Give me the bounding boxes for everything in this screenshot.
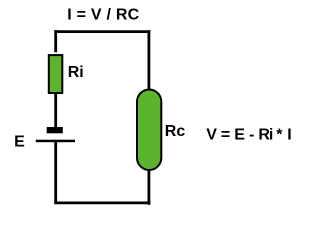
svg-text:I = V / RC: I = V / RC	[67, 7, 139, 24]
wire bottom horizontal	[54, 201, 150, 204]
battery E plate (thick short, top)	[47, 127, 63, 133]
svg-text:i * I: i * I	[269, 127, 292, 144]
wire top horizontal	[54, 30, 150, 33]
capacitor/load Rc	[137, 90, 161, 171]
wire left upper (top rail to resistor Ri)	[54, 30, 57, 52]
svg-text:V = E - R: V = E - R	[206, 127, 270, 144]
battery E plate (thin long, bottom)	[36, 140, 75, 143]
svg-text:Ri: Ri	[68, 64, 84, 81]
svg-text:E: E	[14, 133, 25, 150]
resistor Ri	[49, 55, 63, 93]
wire left lower (battery E to bottom rail)	[54, 141, 57, 204]
svg-text:Rc: Rc	[165, 123, 186, 140]
wire right vertical (through Rc)	[147, 30, 150, 205]
wire left middle (resistor Ri to battery E)	[54, 94, 57, 129]
